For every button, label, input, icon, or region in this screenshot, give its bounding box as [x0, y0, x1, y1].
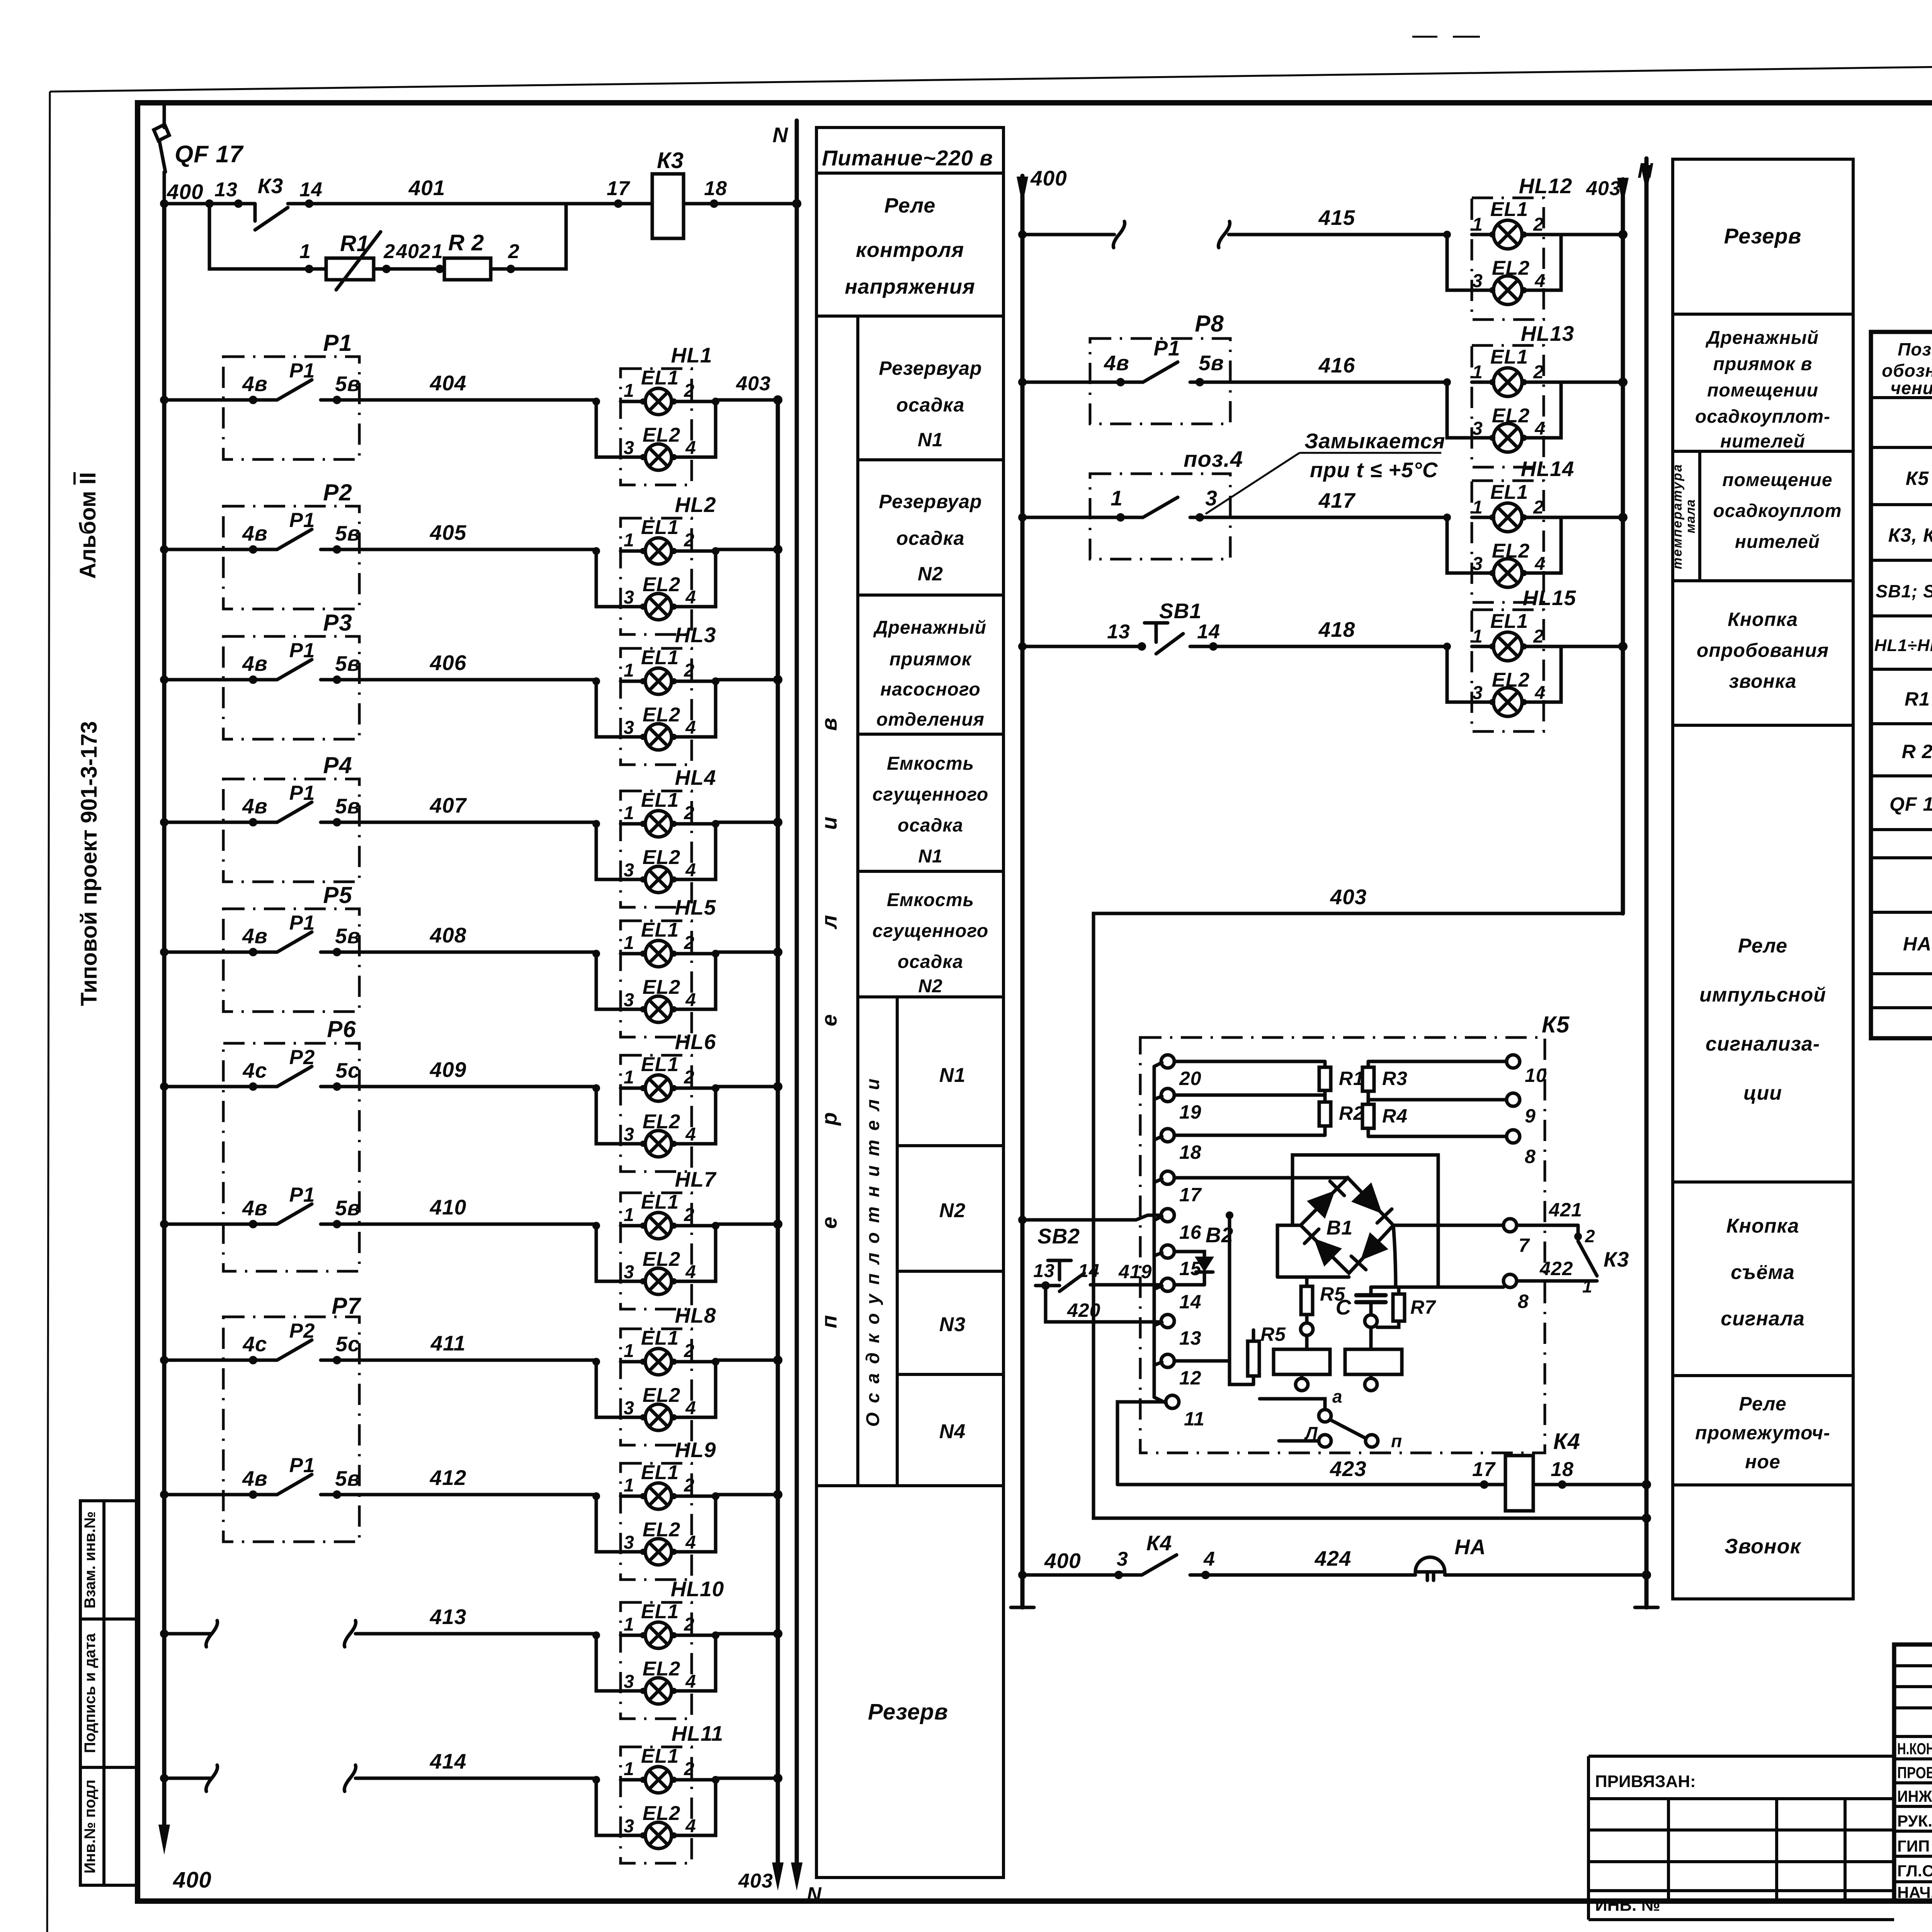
svg-text:В1: В1: [1327, 1217, 1353, 1239]
svg-text:при t ≤ +5°С: при t ≤ +5°С: [1310, 458, 1438, 482]
wire 419 to t14: [1090, 1261, 1161, 1285]
lamp HL8: [592, 1303, 719, 1445]
resistor R2: [1319, 1095, 1364, 1135]
svg-text:п: п: [817, 1315, 841, 1328]
svg-text:406: 406: [430, 651, 467, 675]
wire to 403 bus: [716, 372, 782, 405]
terminal 10: [1507, 1055, 1547, 1086]
wire to R1-R2 branch: [209, 204, 326, 273]
svg-text:Резерв: Резерв: [1724, 224, 1802, 248]
svg-text:Подпись и дата: Подпись и дата: [82, 1633, 99, 1753]
svg-text:е: е: [817, 1216, 841, 1229]
contact box P3: [223, 610, 359, 739]
svg-text:HL5: HL5: [675, 895, 716, 919]
label: температура мала (rotated): [1670, 463, 1698, 569]
svg-text:13: 13: [214, 179, 238, 201]
svg-text:HL7: HL7: [675, 1167, 717, 1191]
svg-text:Р7: Р7: [332, 1293, 361, 1319]
terminal 8a: [1503, 1274, 1529, 1312]
wire to 403 bus: [716, 947, 782, 957]
contact box P6 (rows 409-410): [223, 1016, 359, 1271]
svg-text:ное: ное: [1745, 1451, 1781, 1473]
resistor R5 (upper): [1301, 1277, 1345, 1335]
terminal 16: [1161, 1209, 1202, 1243]
svg-text:N: N: [772, 123, 788, 147]
svg-text:ИНВ. №: ИНВ. №: [1595, 1896, 1660, 1915]
svg-text:Резервуар: Резервуар: [879, 357, 982, 379]
svg-text:звонка: звонка: [1729, 670, 1797, 692]
svg-text:422: 422: [1539, 1258, 1573, 1279]
svg-text:С: С: [1336, 1295, 1352, 1319]
svg-text:11: 11: [1184, 1408, 1205, 1430]
svg-text:ПРОВЕРИЛ: ПРОВЕРИЛ: [1897, 1764, 1932, 1782]
row R1: [1905, 686, 1932, 710]
wire to 403 bus: [1561, 230, 1628, 239]
svg-text:403: 403: [1330, 885, 1367, 909]
svg-text:HL1: HL1: [671, 343, 713, 367]
winding 2: [1345, 1327, 1402, 1391]
row QF17: [1889, 791, 1932, 815]
wire 405: [160, 520, 596, 554]
winding 1: [1274, 1335, 1330, 1391]
wire 18 to N bus: [684, 177, 797, 208]
wire to 403 bus: [716, 1490, 782, 1499]
contact P1: [223, 912, 361, 956]
svg-text:N2: N2: [939, 1199, 966, 1222]
wire to 403 bus: [1561, 513, 1628, 522]
400 bus (left section): [158, 204, 212, 1893]
svg-text:Емкость: Емкость: [887, 890, 974, 910]
svg-text:10: 10: [1525, 1065, 1547, 1086]
svg-text:400: 400: [1030, 166, 1067, 190]
wire 410: [160, 1195, 596, 1228]
svg-text:ПРИВЯЗАН:: ПРИВЯЗАН:: [1595, 1772, 1696, 1791]
svg-text:ции: ции: [1743, 1082, 1782, 1104]
svg-text:N1: N1: [918, 846, 942, 867]
row K5: [1906, 466, 1932, 489]
wire 409: [160, 1058, 596, 1091]
wire to 403 bus: [716, 1082, 782, 1091]
svg-text:осадка: осадка: [896, 394, 965, 416]
svg-text:HL6: HL6: [675, 1030, 716, 1054]
label: Резервуар осадка N2: [879, 491, 982, 585]
svg-text:8: 8: [1518, 1291, 1529, 1312]
wire R4 to t9: [1368, 1098, 1507, 1102]
svg-text:п: п: [1391, 1431, 1402, 1451]
svg-text:мала: мала: [1683, 499, 1698, 534]
svg-text:HL8: HL8: [675, 1303, 716, 1327]
svg-text:К3: К3: [1604, 1247, 1629, 1271]
wire C/R7 node to terminal 8a: [1371, 1286, 1503, 1289]
table headers: [1882, 339, 1932, 398]
svg-text:1: 1: [1111, 486, 1123, 510]
wire 416: [1018, 336, 1447, 386]
svg-text:420: 420: [1067, 1299, 1100, 1321]
svg-text:К4: К4: [1146, 1531, 1172, 1555]
terminal 7: [1503, 1219, 1530, 1256]
label: Резервуар осадка N1: [879, 357, 982, 451]
bell HA: [1415, 1535, 1486, 1580]
terminal 11: [1166, 1395, 1205, 1430]
margin note: Альбом II (rotated): [75, 472, 100, 579]
label: Кнопка съёма сигнала: [1721, 1215, 1805, 1330]
svg-text:N1: N1: [939, 1064, 966, 1087]
svg-text:HL15: HL15: [1523, 586, 1577, 610]
bridge frame wires: [1277, 1155, 1438, 1287]
lamp HL11: [592, 1721, 723, 1863]
svg-text:Р6: Р6: [327, 1016, 356, 1042]
wire R3 to t10: [1368, 1060, 1507, 1063]
svg-text:отделения: отделения: [876, 709, 985, 730]
svg-text:Дренажный: Дренажный: [1705, 328, 1819, 348]
contact box P4: [223, 752, 359, 882]
svg-text:R5: R5: [1260, 1323, 1286, 1345]
node 400 top / wire 400: [160, 179, 255, 208]
scan artifact dashes top center: [1412, 36, 1480, 38]
wire 423: [1117, 1457, 1505, 1489]
contact K3 (13-14): [255, 174, 652, 230]
svg-text:QF 17: QF 17: [1889, 793, 1932, 815]
lamp HL12: [1443, 174, 1572, 320]
wire R4 bottom to t8: [1368, 1135, 1507, 1138]
svg-text:HL10: HL10: [671, 1577, 724, 1601]
lamp HL13: [1443, 321, 1574, 467]
svg-text:3: 3: [1205, 486, 1218, 510]
wire 414 (spare, with breaks): [160, 1749, 596, 1791]
label: Кнопка опробования звонка: [1697, 609, 1829, 692]
400 bus (middle): [1011, 166, 1067, 1607]
svg-text:Р8: Р8: [1195, 311, 1224, 337]
wire 18 to N bus: [1533, 1458, 1651, 1489]
svg-text:R4: R4: [1382, 1105, 1408, 1127]
wire 406: [160, 651, 596, 684]
svg-text:Кнопка: Кнопка: [1726, 1215, 1799, 1237]
svg-text:Р1: Р1: [323, 330, 352, 356]
403 bus (left section): [738, 400, 784, 1892]
svg-text:1: 1: [299, 240, 311, 263]
svg-text:2: 2: [383, 240, 395, 263]
wire 403 link to K5: [1094, 885, 1651, 1523]
wire to 403 bus: [716, 1355, 782, 1365]
svg-text:414: 414: [430, 1749, 467, 1773]
wire 422: [1517, 1258, 1597, 1296]
wire 421 and contact K3: [1517, 1199, 1629, 1276]
margin note: Типовой проект 901-3-173 (rotated): [77, 721, 102, 1006]
svg-text:Взам. инв.№: Взам. инв.№: [82, 1511, 99, 1608]
svg-text:9: 9: [1525, 1105, 1536, 1127]
svg-text:Р2: Р2: [323, 480, 352, 505]
terminal 18: [1161, 1129, 1202, 1163]
svg-text:и: и: [817, 816, 841, 830]
svg-text:14: 14: [1078, 1261, 1099, 1281]
label: N3 cell: [939, 1313, 966, 1336]
wire 400 bus to t16: [1018, 1215, 1161, 1224]
svg-text:осадкоуплот-: осадкоуплот-: [1695, 406, 1830, 427]
svg-text:2: 2: [1585, 1226, 1595, 1246]
svg-text:403: 403: [1586, 177, 1621, 200]
svg-text:НА: НА: [1454, 1535, 1486, 1559]
svg-text:423: 423: [1330, 1457, 1367, 1481]
svg-text:осадка: осадка: [898, 815, 963, 836]
relay coil K4: [1505, 1429, 1580, 1511]
svg-text:17: 17: [1179, 1184, 1202, 1206]
wire 415 (with breaks): [1018, 206, 1447, 248]
svg-text:R 2: R 2: [1902, 741, 1932, 762]
wire 413 (spare, with breaks): [160, 1605, 596, 1647]
svg-text:418: 418: [1318, 617, 1355, 641]
lamp HL1: [592, 343, 719, 485]
svg-text:Реле: Реле: [1738, 935, 1787, 957]
svg-text:Емкость: Емкость: [887, 753, 974, 774]
wire 411: [160, 1331, 596, 1364]
svg-text:400: 400: [167, 180, 204, 204]
svg-text:419: 419: [1118, 1261, 1152, 1282]
svg-text:температура: температура: [1670, 463, 1685, 569]
label: Резерв: [868, 1699, 948, 1725]
svg-text:нителей: нителей: [1720, 431, 1805, 452]
svg-text:405: 405: [430, 520, 467, 544]
wire bridge right corner down to C/R7 node: [1393, 1225, 1396, 1287]
N bus (left section): [772, 121, 822, 1906]
svg-text:HL13: HL13: [1521, 321, 1575, 345]
terminal 8: [1507, 1130, 1536, 1167]
contact P1: [223, 509, 361, 554]
svg-text:4в: 4в: [1104, 351, 1129, 375]
svg-text:403: 403: [736, 372, 771, 395]
svg-text:сигнализа-: сигнализа-: [1706, 1033, 1820, 1055]
svg-text:сгущенного: сгущенного: [872, 784, 988, 805]
label: Резерв: [1724, 224, 1802, 248]
label: Питание ~220 в: [822, 146, 993, 170]
N bus (middle): [1635, 158, 1658, 1607]
svg-text:408: 408: [430, 923, 467, 947]
resistor R4: [1362, 1100, 1408, 1136]
terminal 13: [1161, 1315, 1202, 1349]
label: Звонок: [1725, 1535, 1802, 1558]
lamp HL10: [592, 1577, 724, 1719]
wire t11 to 423: [1117, 1402, 1166, 1485]
svg-text:К5: К5: [1906, 468, 1929, 489]
svg-text:Н.КОНТРОЛЬ: Н.КОНТРОЛЬ: [1897, 1740, 1932, 1758]
svg-text:411: 411: [430, 1331, 466, 1355]
svg-text:N2: N2: [918, 976, 942, 997]
label: Дренажный приямок насосного отделения: [873, 617, 986, 730]
lamp HL6: [592, 1030, 719, 1172]
svg-text:410: 410: [430, 1195, 467, 1219]
svg-text:HL12: HL12: [1519, 174, 1573, 198]
wire from R2 to wire 401: [491, 204, 566, 273]
label: Реле промежуточное: [1695, 1393, 1830, 1473]
lamp HL14: [1443, 457, 1574, 602]
label: перелив (rotated): [817, 718, 841, 1328]
svg-text:R1: R1: [1905, 688, 1930, 710]
svg-text:НАЧ.ОТД: НАЧ.ОТД: [1897, 1883, 1932, 1901]
svg-text:13: 13: [1107, 621, 1130, 643]
svg-text:HL2: HL2: [675, 493, 716, 517]
svg-text:поз.4: поз.4: [1184, 447, 1243, 472]
wire t19 to R2: [1174, 1094, 1325, 1097]
svg-text:R2: R2: [1339, 1102, 1364, 1124]
label: Реле импульсной сигнализации: [1699, 935, 1826, 1104]
svg-text:19: 19: [1179, 1101, 1202, 1123]
svg-text:SВ1; SВ2: SВ1; SВ2: [1876, 581, 1932, 601]
terminal 12: [1161, 1354, 1202, 1389]
wire to 403 bus: [716, 545, 782, 554]
capacitor C: [1336, 1287, 1386, 1327]
svg-text:1: 1: [1582, 1276, 1593, 1296]
svg-text:HL11: HL11: [672, 1721, 723, 1745]
svg-text:16: 16: [1179, 1221, 1202, 1243]
svg-text:л: л: [817, 915, 841, 930]
terminal 9: [1507, 1093, 1536, 1127]
svg-text:HL4: HL4: [675, 765, 716, 789]
wire to 403 bus: [716, 1774, 782, 1783]
svg-text:1: 1: [432, 240, 443, 263]
svg-text:опробования: опробования: [1697, 639, 1829, 661]
svg-text:р: р: [817, 1112, 841, 1126]
svg-text:Реле: Реле: [1739, 1393, 1786, 1415]
note: Замыкается при t<=+5 C: [1206, 429, 1445, 514]
svg-text:412: 412: [430, 1466, 467, 1490]
wire to 403 bus: [716, 675, 782, 684]
svg-text:чение: чение: [1891, 378, 1932, 398]
button SB2: [1033, 1224, 1099, 1291]
row HL1-HL15: [1874, 626, 1932, 655]
contact box P2: [223, 480, 359, 609]
svg-text:20: 20: [1179, 1068, 1202, 1089]
svg-text:424: 424: [1315, 1546, 1352, 1570]
svg-text:Осадкоуплотнители: Осадкоуплотнители: [863, 1070, 883, 1427]
lamp HL15: [1443, 586, 1577, 731]
svg-text:401: 401: [408, 176, 446, 200]
wire 404: [160, 371, 596, 404]
label: N4 cell: [939, 1420, 966, 1443]
wire to 403 bus: [716, 1629, 782, 1638]
svg-text:7: 7: [1519, 1235, 1530, 1256]
contact P1: [223, 639, 361, 684]
svg-text:Звонок: Звонок: [1725, 1535, 1802, 1558]
wire 420 to t13: [1046, 1286, 1161, 1322]
lamp HL4: [592, 765, 719, 907]
breaker QF17: [154, 104, 244, 204]
svg-text:Кнопка: Кнопка: [1728, 609, 1798, 630]
resistor R1: [1319, 1061, 1364, 1095]
svg-text:HL14: HL14: [1521, 457, 1575, 481]
wire to 403 bus: [716, 818, 782, 827]
svg-text:N4: N4: [939, 1420, 966, 1443]
svg-text:в: в: [817, 718, 841, 731]
svg-text:HL3: HL3: [675, 623, 716, 647]
svg-text:416: 416: [1318, 353, 1355, 377]
signature rows: [1897, 1740, 1932, 1901]
svg-text:НА: НА: [1903, 933, 1932, 955]
resistor R3: [1362, 1061, 1408, 1100]
svg-text:18: 18: [1179, 1141, 1202, 1163]
contact P1: [223, 782, 361, 827]
svg-text:4: 4: [1203, 1548, 1215, 1570]
svg-text:N1: N1: [918, 429, 943, 451]
svg-text:14: 14: [299, 179, 323, 201]
terminal 14: [1161, 1278, 1202, 1313]
wire t18 to R2 bottom: [1174, 1134, 1325, 1137]
svg-text:осадка: осадка: [898, 952, 963, 972]
contact box P1: [223, 330, 359, 459]
svg-text:Р3: Р3: [323, 610, 352, 636]
wire t20 to R1: [1174, 1060, 1325, 1063]
label: Емкость сгущенного осадка N2: [872, 890, 988, 997]
svg-text:а: а: [1332, 1386, 1343, 1406]
svg-text:Р4: Р4: [323, 752, 352, 778]
row SB1,SB2: [1876, 578, 1932, 601]
svg-text:промежуточ-: промежуточ-: [1695, 1422, 1830, 1444]
svg-text:осадка: осадка: [896, 527, 965, 549]
svg-text:К3: К3: [258, 174, 283, 198]
wire 424 row: 400 3 K4 4: [1018, 1531, 1415, 1579]
resistor R5 (lower left): [1248, 1323, 1286, 1384]
403 bus (middle): [1586, 177, 1629, 913]
terminal rail: [1154, 1063, 1166, 1403]
svg-text:Инв.№ подл: Инв.№ подл: [82, 1779, 99, 1873]
svg-text:сигнала: сигнала: [1721, 1308, 1805, 1330]
label: Емкость сгущенного осадка N1: [872, 753, 988, 867]
wire to 403 bus: [716, 1219, 782, 1229]
svg-text:12: 12: [1179, 1367, 1202, 1389]
label: Дренажный приямок в помещении осадкоуплотнителей: [1695, 328, 1830, 452]
row HA: [1903, 931, 1932, 955]
lamp HL5: [592, 895, 719, 1037]
contact box P5: [223, 882, 359, 1012]
svg-text:14: 14: [1179, 1291, 1202, 1313]
contact P1: [223, 1184, 361, 1228]
contact P2: [223, 1046, 360, 1091]
svg-text:QF 17: QF 17: [175, 141, 244, 168]
svg-text:HL9: HL9: [675, 1438, 716, 1462]
lamp HL7: [592, 1167, 719, 1309]
rectifier B1 bridge: [1301, 1178, 1393, 1273]
wire bell to N bus: [1445, 1570, 1651, 1580]
svg-text:К4: К4: [1553, 1429, 1580, 1454]
svg-text:417: 417: [1318, 488, 1356, 512]
svg-text:413: 413: [430, 1605, 467, 1629]
svg-text:помещение: помещение: [1722, 470, 1832, 490]
svg-text:е: е: [817, 1014, 841, 1026]
svg-text:К3: К3: [657, 148, 684, 173]
svg-text:приямок: приямок: [889, 649, 972, 670]
svg-text:К5: К5: [1542, 1012, 1570, 1037]
wire to 403 bus: [1561, 642, 1628, 651]
relay K5 dashed enclosure: [1140, 1012, 1570, 1453]
lamp HL9: [592, 1438, 719, 1580]
svg-text:N: N: [807, 1883, 822, 1906]
svg-text:Типовой проект 901-3-173: Типовой проект 901-3-173: [77, 721, 102, 1006]
svg-text:R3: R3: [1382, 1068, 1408, 1089]
label: Осадкоуплотнители (rotated): [863, 1070, 883, 1427]
svg-text:РУК.ГР.: РУК.ГР.: [1897, 1812, 1932, 1830]
lamp HL3: [592, 623, 719, 765]
svg-text:18: 18: [704, 177, 727, 200]
svg-text:5в: 5в: [1199, 351, 1224, 375]
wire t12 to winding area: [1174, 1359, 1230, 1363]
svg-text:съёма: съёма: [1731, 1261, 1795, 1284]
svg-text:приямок в: приямок в: [1713, 354, 1813, 374]
svg-text:Резервуар: Резервуар: [879, 491, 982, 512]
svg-text:14: 14: [1197, 621, 1220, 643]
svg-text:Поз.: Поз.: [1898, 339, 1932, 359]
terminal 17: [1161, 1171, 1202, 1206]
svg-text:Р5: Р5: [323, 882, 352, 908]
wire 407: [160, 793, 596, 827]
svg-text:2: 2: [508, 240, 520, 263]
